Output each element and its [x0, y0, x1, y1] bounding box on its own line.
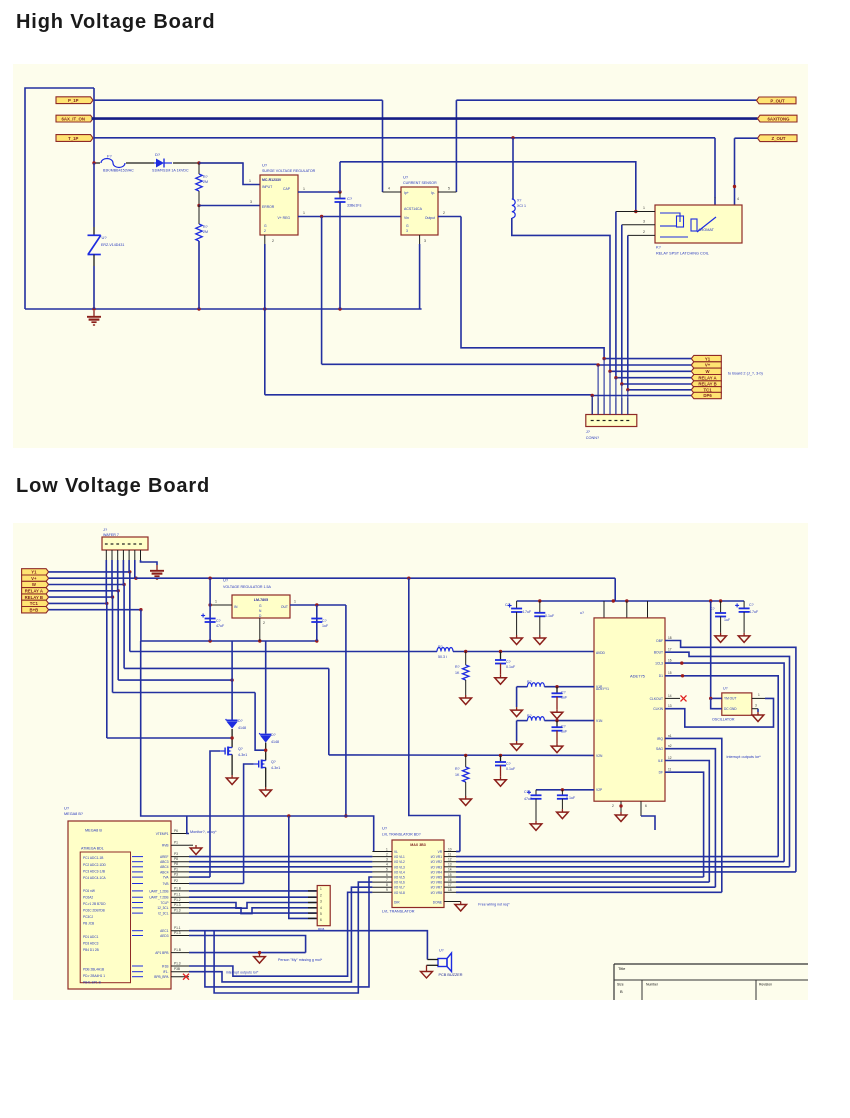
- svg-text:R?: R?: [438, 645, 443, 649]
- svg-text:I/O VR6: I/O VR6: [431, 881, 443, 885]
- svg-text:ATMEGA BDL: ATMEGA BDL: [81, 847, 104, 851]
- svg-text:VTEMP1: VTEMP1: [156, 832, 169, 836]
- svg-text:RELAY A: RELAY A: [698, 375, 716, 380]
- svg-text:3: 3: [406, 229, 408, 233]
- svg-text:PB4 D1 2B: PB4 D1 2B: [83, 948, 99, 952]
- svg-text:9: 9: [386, 888, 388, 892]
- svg-text:U?: U?: [403, 175, 409, 180]
- svg-text:3: 3: [643, 220, 645, 224]
- svg-text:14: 14: [668, 694, 672, 698]
- svg-text:U?: U?: [262, 163, 268, 168]
- svg-text:0.1uF: 0.1uF: [545, 614, 555, 618]
- svg-text:DIR: DIR: [394, 901, 400, 905]
- svg-text:6AX_IT_ON: 6AX_IT_ON: [62, 117, 85, 122]
- svg-text:47uF: 47uF: [524, 797, 533, 801]
- svg-text:P2: P2: [174, 879, 178, 883]
- svg-text:U?: U?: [382, 826, 388, 831]
- svg-text:P1.3: P1.3: [174, 909, 181, 913]
- svg-text:C?: C?: [749, 603, 754, 607]
- svg-text:Number: Number: [646, 983, 659, 987]
- svg-text:AP1 BPB: AP1 BPB: [155, 951, 168, 955]
- svg-text:PD1 ADC1: PD1 ADC1: [83, 935, 99, 939]
- svg-text:PC3CJ: PC3CJ: [83, 915, 94, 919]
- svg-text:D?: D?: [271, 733, 276, 737]
- svg-text:7VA: 7VA: [163, 876, 170, 880]
- svg-text:YM OUT: YM OUT: [724, 697, 736, 701]
- svg-text:C?: C?: [561, 691, 566, 695]
- svg-text:LVL TRANSLATOR: LVL TRANSLATOR: [382, 910, 415, 914]
- svg-text:4.7uF: 4.7uF: [522, 610, 532, 614]
- svg-text:P1.3: P1.3: [174, 903, 181, 907]
- svg-text:P1.3: P1.3: [174, 961, 181, 965]
- svg-text:3: 3: [250, 200, 252, 204]
- svg-text:P1.B: P1.B: [174, 886, 181, 890]
- svg-text:RELAY B: RELAY B: [698, 382, 716, 387]
- svg-text:PC2 ADC2-1DD: PC2 ADC2-1DD: [83, 863, 107, 867]
- svg-text:P3: P3: [174, 852, 178, 856]
- svg-text:U?: U?: [64, 806, 70, 811]
- svg-text:2M: 2M: [203, 230, 208, 234]
- svg-text:BPB_BPA: BPB_BPA: [154, 975, 169, 979]
- svg-text:R?: R?: [455, 665, 460, 669]
- svg-text:DC GND: DC GND: [724, 707, 737, 711]
- svg-text:1: 1: [386, 847, 388, 851]
- svg-text:PDB 2BL4H1B: PDB 2BL4H1B: [83, 968, 104, 972]
- svg-text:ABC4: ABC4: [160, 865, 169, 869]
- svg-text:I/O VR2: I/O VR2: [431, 860, 443, 864]
- svg-text:Low Voltage Board: Low Voltage Board: [16, 475, 210, 497]
- svg-text:PCB BUZZER: PCB BUZZER: [439, 973, 463, 977]
- svg-text:U?: U?: [223, 578, 229, 583]
- svg-text:11: 11: [448, 852, 452, 856]
- svg-text:5: 5: [320, 912, 322, 916]
- svg-text:I2_3CL: I2_3CL: [158, 912, 169, 916]
- svg-text:XCI 1: XCI 1: [517, 204, 526, 208]
- svg-text:ABC4: ABC4: [160, 870, 169, 874]
- svg-text:VOLTAGE REGULATOR 1.5A: VOLTAGE REGULATOR 1.5A: [223, 585, 271, 589]
- svg-text:RELAY B: RELAY B: [25, 595, 43, 600]
- svg-text:4: 4: [320, 906, 322, 910]
- svg-text:R?: R?: [455, 767, 460, 771]
- svg-text:ERZ-V14D431: ERZ-V14D431: [101, 243, 124, 247]
- svg-text:P8: P8: [174, 862, 178, 866]
- svg-text:n1: n1: [668, 734, 672, 738]
- svg-text:P1.3: P1.3: [174, 931, 181, 935]
- svg-text:12: 12: [668, 756, 672, 760]
- svg-text:V+ REG: V+ REG: [277, 216, 290, 220]
- svg-text:interrupt outputs lor*: interrupt outputs lor*: [226, 971, 259, 975]
- svg-text:50.3 i: 50.3 i: [438, 655, 447, 659]
- svg-text:P_1P: P_1P: [68, 98, 79, 103]
- svg-text:11: 11: [668, 768, 672, 772]
- svg-text:R?: R?: [527, 714, 532, 718]
- svg-text:CAP: CAP: [283, 187, 291, 191]
- svg-text:4148: 4148: [238, 726, 246, 730]
- svg-text:13: 13: [448, 863, 452, 867]
- svg-text:AEC1: AEC1: [160, 929, 169, 933]
- svg-text:IF1-: IF1-: [163, 970, 169, 974]
- svg-text:2: 2: [263, 621, 265, 625]
- svg-text:T_1P: T_1P: [68, 136, 78, 141]
- svg-text:1uF: 1uF: [561, 696, 568, 700]
- svg-text:INPUT: INPUT: [262, 185, 272, 189]
- svg-text:2M: 2M: [203, 180, 208, 184]
- svg-text:0.1uF: 0.1uF: [566, 796, 576, 800]
- svg-text:OSCILLATOR: OSCILLATOR: [712, 718, 735, 722]
- svg-text:PC6A2: PC6A2: [83, 896, 93, 900]
- svg-text:Q?: Q?: [238, 747, 243, 751]
- svg-text:P6: P6: [174, 829, 178, 833]
- svg-text:PC6 nW: PC6 nW: [83, 889, 95, 893]
- svg-text:LM-7805: LM-7805: [254, 598, 268, 602]
- svg-text:I/O VL2: I/O VL2: [394, 860, 405, 864]
- svg-text:UART_7.2DB: UART_7.2DB: [149, 896, 168, 900]
- svg-text:1: 1: [320, 887, 322, 891]
- svg-text:I/O VL5: I/O VL5: [394, 876, 405, 880]
- svg-text:PB41 BP1 B: PB41 BP1 B: [83, 981, 101, 985]
- svg-text:1K: 1K: [455, 773, 460, 777]
- svg-text:PC6C 2DB7DB: PC6C 2DB7DB: [83, 909, 105, 913]
- svg-text:Output: Output: [425, 216, 435, 220]
- svg-text:S1M/RS1M 1A 1KVDC: S1M/RS1M 1A 1KVDC: [152, 169, 189, 173]
- svg-text:VR: VR: [438, 850, 443, 854]
- svg-text:4: 4: [737, 197, 739, 201]
- svg-text:interrupt outputs lor*: interrupt outputs lor*: [727, 755, 762, 759]
- svg-text:n2: n2: [668, 744, 672, 748]
- svg-text:16: 16: [448, 878, 452, 882]
- svg-text:1: 1: [294, 600, 296, 604]
- svg-text:12: 12: [448, 858, 452, 862]
- svg-text:RVB: RVB: [162, 844, 169, 848]
- svg-text:7VB: 7VB: [162, 882, 168, 886]
- svg-text:2: 2: [272, 239, 274, 243]
- svg-text:to Board 2 (J_?, 3-b): to Board 2 (J_?, 3-b): [728, 372, 764, 376]
- svg-text:2: 2: [643, 230, 645, 234]
- svg-text:Vin: Vin: [404, 216, 409, 220]
- svg-text:IF1B: IF1B: [162, 964, 169, 968]
- svg-text:Z_OUT: Z_OUT: [771, 136, 785, 141]
- svg-text:1: 1: [249, 179, 251, 183]
- svg-text:10: 10: [448, 847, 452, 851]
- svg-text:ABC3: ABC3: [160, 860, 169, 864]
- svg-text:D?: D?: [238, 719, 243, 723]
- svg-text:High Voltage Board: High Voltage Board: [16, 11, 215, 33]
- svg-text:RELAY SPST LATCHING COIL: RELAY SPST LATCHING COIL: [656, 252, 709, 256]
- svg-text:X?: X?: [517, 199, 521, 203]
- svg-text:5: 5: [448, 187, 450, 191]
- svg-text:G: G: [264, 224, 267, 228]
- svg-text:P1: P1: [174, 841, 178, 845]
- svg-text:U?: U?: [723, 687, 728, 691]
- svg-text:2: 2: [320, 893, 322, 897]
- svg-text:7: 7: [386, 878, 388, 882]
- svg-text:2: 2: [443, 211, 445, 215]
- svg-text:P_OUT: P_OUT: [770, 98, 785, 103]
- svg-text:I/O VR7: I/O VR7: [431, 886, 443, 890]
- svg-text:PD3 ADC3: PD3 ADC3: [83, 941, 99, 945]
- svg-text:8: 8: [386, 883, 388, 887]
- svg-text:1uF: 1uF: [322, 624, 329, 628]
- svg-text:G: G: [259, 604, 262, 608]
- svg-text:U?: U?: [439, 949, 444, 953]
- svg-text:3: 3: [755, 704, 757, 708]
- svg-text:33Be1Fs: 33Be1Fs: [347, 204, 362, 208]
- svg-text:AVDD: AVDD: [596, 651, 606, 655]
- svg-text:Ip+: Ip+: [404, 191, 409, 195]
- svg-text:DONE: DONE: [433, 901, 442, 905]
- svg-text:4.7uF: 4.7uF: [749, 610, 759, 614]
- svg-text:IN: IN: [234, 605, 238, 609]
- svg-text:2: 2: [264, 229, 266, 233]
- svg-text:18: 18: [668, 636, 672, 640]
- svg-text:5: 5: [386, 868, 388, 872]
- svg-text:TC1: TC1: [30, 601, 39, 606]
- svg-text:15: 15: [668, 671, 672, 675]
- svg-text:R?: R?: [527, 680, 532, 684]
- svg-text:C?: C?: [561, 725, 566, 729]
- svg-text:I/O VR1: I/O VR1: [431, 855, 443, 859]
- svg-text:6: 6: [645, 804, 647, 808]
- svg-text:I/O VR8: I/O VR8: [431, 891, 443, 895]
- svg-text:P1.1: P1.1: [174, 893, 181, 897]
- svg-text:OUT: OUT: [281, 605, 288, 609]
- svg-text:4-3n1: 4-3n1: [238, 753, 247, 757]
- svg-text:P1.2: P1.2: [174, 898, 181, 902]
- svg-text:7: 7: [714, 197, 716, 201]
- svg-text:F?: F?: [107, 154, 112, 159]
- svg-text:Ip-: Ip-: [431, 191, 435, 195]
- svg-text:BOUT: BOUT: [654, 651, 663, 655]
- svg-text:ERROR: ERROR: [262, 205, 275, 209]
- svg-text:PC4 ADC4-1CA: PC4 ADC4-1CA: [83, 876, 107, 880]
- svg-text:MC-R1233V: MC-R1233V: [262, 178, 282, 182]
- svg-text:I/O VR3: I/O VR3: [431, 865, 443, 869]
- svg-text:ADE775: ADE775: [630, 674, 646, 679]
- svg-text:13: 13: [668, 704, 672, 708]
- svg-text:P8: P8: [174, 857, 178, 861]
- svg-text:6AXITONG: 6AXITONG: [768, 117, 791, 122]
- svg-text:2: 2: [386, 852, 388, 856]
- svg-text:CONN?: CONN?: [586, 436, 599, 440]
- svg-text:17: 17: [668, 648, 672, 652]
- svg-text:15: 15: [448, 873, 452, 877]
- svg-text:3: 3: [320, 900, 322, 904]
- svg-text:SURGE VOLTAGE REGULATOR: SURGE VOLTAGE REGULATOR: [262, 169, 316, 173]
- svg-text:DP6: DP6: [703, 393, 712, 398]
- svg-text:V+: V+: [31, 576, 37, 581]
- svg-text:3: 3: [424, 239, 426, 243]
- svg-text:C?: C?: [322, 619, 327, 623]
- svg-text:AREF: AREF: [160, 855, 169, 859]
- svg-text:U?: U?: [102, 235, 108, 240]
- svg-text:3: 3: [386, 858, 388, 862]
- svg-text:1: 1: [303, 187, 305, 191]
- svg-text:P3: P3: [174, 873, 178, 877]
- svg-text:P1: P1: [174, 867, 178, 871]
- svg-text:PD-r 2BA4H1 1: PD-r 2BA4H1 1: [83, 974, 105, 978]
- svg-text:B: B: [620, 989, 623, 994]
- svg-text:I/O VR4: I/O VR4: [431, 870, 443, 874]
- svg-text:ILE: ILE: [658, 759, 664, 763]
- svg-text:6: 6: [320, 918, 322, 922]
- svg-text:DF: DF: [659, 771, 663, 775]
- svg-text:R?: R?: [203, 225, 208, 229]
- svg-text:1: 1: [758, 693, 760, 697]
- svg-text:LVL TRANSLATOR BD?: LVL TRANSLATOR BD?: [382, 833, 421, 837]
- svg-text:R?: R?: [203, 175, 208, 179]
- svg-text:C?: C?: [347, 196, 353, 201]
- svg-text:Free wiring not req*: Free wiring not req*: [478, 903, 510, 907]
- svg-text:D1: D1: [659, 674, 663, 678]
- svg-text:1uF: 1uF: [724, 618, 731, 622]
- svg-text:MEGA8 B: MEGA8 B: [85, 829, 102, 833]
- svg-text:0.1uF: 0.1uF: [506, 767, 516, 771]
- svg-text:I/O VL7: I/O VL7: [394, 886, 405, 890]
- svg-text:G: G: [406, 224, 409, 228]
- svg-text:Q?: Q?: [271, 760, 276, 764]
- svg-text:SAG: SAG: [656, 747, 663, 751]
- svg-text:P3B: P3B: [174, 967, 180, 971]
- svg-text:K?: K?: [656, 245, 662, 250]
- svg-text:18: 18: [448, 888, 452, 892]
- svg-text:I/O VL8: I/O VL8: [394, 891, 405, 895]
- svg-text:MEGA8 B?: MEGA8 B?: [64, 812, 83, 816]
- svg-text:AED3: AED3: [160, 934, 169, 938]
- svg-text:I/O VR5: I/O VR5: [431, 876, 443, 880]
- svg-text:Monitor?, at uy*: Monitor?, at uy*: [190, 830, 217, 834]
- svg-text:WAFER 7: WAFER 7: [103, 533, 119, 537]
- svg-text:VL: VL: [394, 850, 398, 854]
- svg-text:12_3CL: 12_3CL: [157, 906, 168, 910]
- svg-text:V2N: V2N: [596, 754, 603, 758]
- svg-text:47uF: 47uF: [216, 624, 225, 628]
- svg-text:UART_1.2DB: UART_1.2DB: [149, 889, 168, 893]
- svg-text:PB JCB: PB JCB: [83, 922, 94, 926]
- svg-text:17: 17: [448, 883, 452, 887]
- svg-text:I/O VL1: I/O VL1: [394, 855, 405, 859]
- svg-text:4148: 4148: [271, 740, 279, 744]
- svg-text:V2P: V2P: [596, 788, 603, 792]
- svg-text:ADEYY1: ADEYY1: [596, 687, 609, 691]
- svg-text:IRQ: IRQ: [657, 737, 663, 741]
- svg-text:4: 4: [386, 863, 388, 867]
- svg-text:Y1: Y1: [705, 356, 711, 361]
- svg-text:P1.B: P1.B: [174, 948, 181, 952]
- svg-text:V1N: V1N: [596, 719, 603, 723]
- svg-text:MAX 3B3: MAX 3B3: [410, 843, 426, 847]
- svg-text:C?: C?: [506, 660, 511, 664]
- svg-text:Size: Size: [617, 983, 624, 987]
- svg-text:1uF: 1uF: [561, 730, 568, 734]
- svg-text:1: 1: [303, 211, 305, 215]
- svg-text:16: 16: [668, 659, 672, 663]
- svg-text:4-3n1: 4-3n1: [271, 766, 280, 770]
- svg-text:RELAY A: RELAY A: [25, 589, 43, 594]
- svg-text:6: 6: [386, 873, 388, 877]
- svg-text:C?: C?: [216, 619, 221, 623]
- svg-text:1K: 1K: [455, 671, 460, 675]
- svg-text:2: 2: [612, 804, 614, 808]
- svg-text:PC3 ADC3-1JB: PC3 ADC3-1JB: [83, 869, 105, 873]
- svg-text:D?: D?: [155, 152, 161, 157]
- svg-text:V+: V+: [705, 363, 711, 368]
- svg-text:14: 14: [448, 868, 452, 872]
- svg-text:1: 1: [643, 206, 645, 210]
- svg-text:B+B: B+B: [29, 607, 38, 612]
- svg-text:Title: Title: [618, 966, 626, 971]
- svg-text:Person "My" missing g mol*: Person "My" missing g mol*: [278, 958, 323, 962]
- svg-text:CLKOUT: CLKOUT: [650, 697, 663, 701]
- svg-text:4: 4: [388, 187, 390, 191]
- svg-text:CLKIN: CLKIN: [653, 707, 663, 711]
- svg-text:7CLP: 7CLP: [161, 901, 169, 905]
- svg-text:C?: C?: [506, 762, 511, 766]
- svg-text:B3K/MBB4153VAC: B3K/MBB4153VAC: [103, 169, 134, 173]
- svg-text:1CL3: 1CL3: [655, 662, 663, 666]
- svg-text:ACS714CA: ACS714CA: [404, 207, 423, 211]
- svg-text:DBF: DBF: [656, 639, 663, 643]
- svg-text:Y1: Y1: [31, 570, 37, 575]
- svg-text:CURRENT SENSOR: CURRENT SENSOR: [403, 181, 437, 185]
- svg-text:PC-r1 2B B7DD: PC-r1 2B B7DD: [83, 902, 106, 906]
- svg-text:0.1uF: 0.1uF: [506, 665, 516, 669]
- svg-text:I/O VL3: I/O VL3: [394, 865, 405, 869]
- svg-text:u?: u?: [580, 611, 584, 615]
- svg-text:I/O VL6: I/O VL6: [394, 881, 405, 885]
- svg-text:1: 1: [215, 600, 217, 604]
- svg-text:C?: C?: [524, 790, 529, 794]
- svg-text:PC1 ADC1-1B: PC1 ADC1-1B: [83, 856, 103, 860]
- svg-text:Revision: Revision: [759, 983, 772, 987]
- svg-text:P1.1: P1.1: [174, 926, 181, 930]
- svg-text:I/O VL4: I/O VL4: [394, 870, 405, 874]
- svg-text:C?: C?: [505, 603, 510, 607]
